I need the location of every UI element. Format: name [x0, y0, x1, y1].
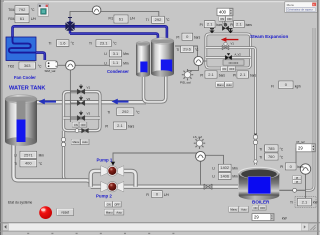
- svg-text:2.1: 2.1: [207, 22, 213, 27]
- svg-text:bars: bars: [250, 73, 257, 77]
- svg-text:V3: V3: [87, 112, 91, 116]
- svg-text:29: 29: [254, 215, 259, 220]
- svg-text:Générateur de vapeur: Générateur de vapeur: [287, 8, 313, 12]
- svg-text:TI: TI: [14, 162, 17, 166]
- svg-text:1406: 1406: [220, 173, 230, 178]
- svg-text:Pump 2: Pump 2: [96, 193, 112, 198]
- svg-text:Etat du système: Etat du système: [8, 201, 32, 205]
- svg-text:OFF: OFF: [227, 17, 233, 21]
- svg-text:LI: LI: [14, 154, 17, 158]
- svg-text:bars: bars: [194, 35, 201, 39]
- svg-text:FI: FI: [271, 84, 274, 88]
- svg-text:PI: PI: [200, 73, 203, 77]
- svg-text:PI: PI: [296, 177, 299, 180]
- svg-text:2.1: 2.1: [208, 72, 214, 77]
- svg-text:1402: 1402: [220, 165, 230, 170]
- svg-text:V1: V1: [231, 42, 235, 46]
- svg-text:L/H: L/H: [130, 17, 136, 21]
- svg-text:760: 760: [268, 154, 275, 159]
- svg-text:bars: bars: [128, 125, 135, 129]
- svg-text:TI: TI: [89, 42, 92, 46]
- svg-text:ON: ON: [222, 67, 226, 71]
- svg-text:61: 61: [119, 16, 124, 21]
- svg-text:ON: ON: [107, 203, 111, 207]
- svg-text:2.1: 2.1: [302, 200, 308, 205]
- svg-text:V2: V2: [87, 97, 91, 101]
- svg-text:BOILER: BOILER: [252, 200, 270, 205]
- svg-text:3.1: 3.1: [113, 51, 119, 56]
- svg-text:785: 785: [268, 146, 275, 151]
- svg-text:Auto: Auto: [116, 211, 122, 215]
- svg-text:Manu: Manu: [230, 208, 237, 212]
- svg-text:WATER TANK: WATER TANK: [9, 86, 45, 92]
- svg-text:OFF: OFF: [81, 123, 87, 127]
- svg-text:reset: reset: [62, 210, 70, 214]
- svg-text:292: 292: [122, 109, 129, 114]
- svg-text:Manu: Manu: [106, 211, 113, 215]
- svg-text:Pump 1: Pump 1: [97, 157, 113, 162]
- svg-text:OFF: OFF: [260, 206, 266, 210]
- svg-text:29.6: 29.6: [183, 47, 192, 52]
- svg-text:PI: PI: [176, 35, 179, 39]
- svg-text:PI: PI: [296, 181, 299, 184]
- svg-text:LI: LI: [212, 166, 215, 170]
- svg-text:LS: LS: [223, 21, 226, 24]
- svg-text:FI: FI: [146, 193, 149, 197]
- svg-text:ON: ON: [254, 206, 258, 210]
- svg-text:Steam Expansion: Steam Expansion: [250, 34, 288, 39]
- svg-text:2571: 2571: [24, 152, 34, 157]
- svg-text:61: 61: [20, 16, 25, 21]
- svg-text:bars: bars: [297, 165, 304, 169]
- svg-text:2.1: 2.1: [240, 72, 246, 77]
- svg-text:Auto: Auto: [82, 140, 88, 144]
- svg-text:V1: V1: [87, 85, 91, 89]
- svg-text:Manu: Manu: [217, 83, 224, 87]
- svg-text:Fan Cooler: Fan Cooler: [14, 75, 36, 80]
- svg-text:LS_ref: LS_ref: [193, 135, 202, 139]
- svg-text:PI: PI: [200, 23, 203, 27]
- svg-text:TI04: TI04: [8, 8, 15, 12]
- svg-text:A_V2: A_V2: [235, 52, 242, 56]
- svg-text:292: 292: [155, 17, 162, 22]
- svg-text:kg/h: kg/h: [295, 84, 301, 88]
- svg-text:23.1: 23.1: [100, 41, 109, 46]
- svg-text:FI1: FI1: [109, 17, 114, 21]
- svg-text:LI: LI: [104, 61, 107, 65]
- svg-text:SIM_val: SIM_val: [45, 69, 56, 73]
- svg-text:Condenser: Condenser: [107, 69, 129, 74]
- svg-text:TI: TI: [259, 155, 262, 159]
- svg-text:bars: bars: [216, 23, 223, 27]
- svg-text:L/H: L/H: [164, 193, 170, 197]
- svg-text:PI: PI: [233, 73, 236, 77]
- svg-text:Menu: Menu: [287, 3, 295, 7]
- svg-text:2.1: 2.1: [236, 22, 242, 27]
- svg-text:PID_val: PID_val: [180, 80, 191, 84]
- svg-text:Auto: Auto: [241, 208, 247, 212]
- svg-text:Mm: Mm: [39, 154, 45, 158]
- svg-text:363: 363: [24, 63, 31, 68]
- svg-text:TI: TI: [259, 147, 262, 151]
- svg-text:TI: TI: [176, 48, 179, 52]
- svg-text:Mm: Mm: [123, 61, 129, 65]
- svg-text:400: 400: [25, 161, 32, 166]
- svg-text:792: 792: [19, 7, 26, 12]
- svg-text:400: 400: [219, 10, 227, 15]
- svg-text:bars: bars: [246, 23, 253, 27]
- svg-text:29: 29: [298, 145, 303, 150]
- svg-text:kW: kW: [313, 200, 318, 204]
- svg-text:ON: ON: [74, 123, 78, 127]
- svg-text:Manu: Manu: [72, 140, 79, 144]
- svg-text:OFF: OFF: [115, 203, 121, 207]
- svg-text:1.6: 1.6: [60, 41, 66, 46]
- svg-text:PI: PI: [280, 165, 283, 169]
- svg-text:Mm: Mm: [232, 166, 238, 170]
- svg-text:TI: TI: [107, 111, 110, 115]
- svg-text:L/H: L/H: [31, 17, 37, 21]
- svg-text:TI: TI: [146, 18, 149, 22]
- svg-text:PI: PI: [105, 125, 108, 129]
- svg-text:2.1: 2.1: [117, 123, 123, 128]
- svg-text:TI: TI: [49, 42, 52, 46]
- svg-text:LI: LI: [104, 52, 107, 56]
- svg-text:1.1: 1.1: [113, 60, 119, 65]
- svg-text:bars: bars: [219, 73, 226, 77]
- svg-text:Mm: Mm: [123, 52, 129, 56]
- svg-text:ON OFF: ON OFF: [229, 61, 239, 65]
- svg-text:LI: LI: [212, 175, 215, 179]
- svg-text:TI: TI: [290, 200, 293, 204]
- svg-text:Auto: Auto: [226, 83, 232, 87]
- svg-text:TI02: TI02: [8, 64, 15, 68]
- svg-text:FI04: FI04: [8, 17, 15, 21]
- svg-text:PI: PI: [230, 23, 233, 27]
- svg-text:kW: kW: [282, 216, 287, 220]
- svg-text:Mm: Mm: [232, 175, 238, 179]
- svg-text:OFF: OFF: [229, 67, 235, 71]
